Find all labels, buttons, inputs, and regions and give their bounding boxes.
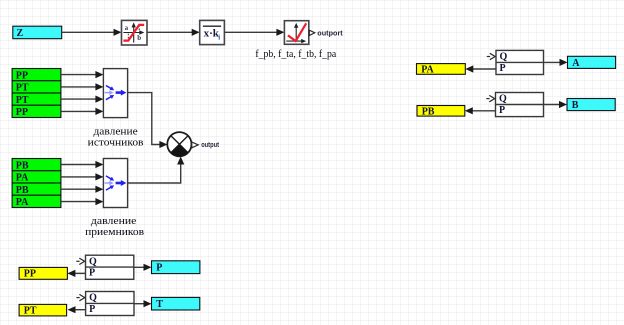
wire Q/P 1 to PP — [67, 270, 85, 277]
output port A — [568, 56, 616, 69]
wire Z to saturation block — [62, 29, 122, 36]
svg-text:приемников: приемников — [85, 226, 144, 238]
wire Q/P 2 to PT — [68, 306, 86, 313]
svg-text:PB: PB — [16, 160, 29, 171]
svg-text:Z: Z — [17, 28, 24, 39]
svg-text:PT: PT — [24, 305, 37, 316]
input block PP (2) — [12, 105, 61, 118]
mux1 давление источников — [103, 69, 127, 118]
Q/P converter block 3 — [487, 50, 544, 74]
Q/P converter block 2 — [76, 292, 134, 316]
svg-text:P: P — [499, 105, 505, 116]
svg-text:P: P — [89, 304, 95, 315]
svg-text:Q: Q — [499, 94, 507, 105]
wire Q/P 4 to PB — [465, 107, 496, 114]
wire PA(2) to mux2 — [61, 198, 104, 205]
wire mux2 to multiplier — [128, 157, 185, 184]
database write block PP — [19, 267, 67, 279]
svg-text:output: output — [201, 140, 219, 149]
svg-text:B: B — [572, 100, 579, 111]
input block PB (2) — [12, 183, 61, 196]
Q/P converter block 4 — [486, 93, 543, 117]
wire PA to mux2 — [61, 173, 104, 180]
input block PP (1) — [12, 69, 61, 82]
svg-text:PT: PT — [16, 95, 29, 106]
svg-text:PP: PP — [24, 268, 36, 279]
svg-text:источников: источников — [88, 137, 144, 149]
svg-text:PB: PB — [422, 106, 435, 117]
svg-text:Q: Q — [89, 256, 97, 267]
svg-text:T: T — [156, 299, 163, 310]
svg-text:PA: PA — [16, 197, 29, 208]
wire Q/P 1 to port P — [134, 264, 152, 271]
input block PT (1) — [12, 81, 61, 94]
wire Q/P 4 to port B — [544, 101, 568, 108]
output port P — [152, 261, 200, 274]
input block PB (1) — [12, 159, 61, 172]
svg-text:PP: PP — [16, 107, 28, 118]
database write block PB — [417, 106, 465, 118]
output port B — [567, 99, 615, 112]
svg-text:Q: Q — [89, 293, 97, 304]
svg-text:P: P — [89, 268, 95, 279]
input block PT (2) — [12, 93, 61, 106]
output port T — [152, 297, 200, 310]
svg-text:i: i — [218, 34, 220, 42]
svg-text:PT: PT — [16, 83, 29, 94]
wire PT to mux1 — [61, 83, 104, 90]
outport port marker — [309, 30, 314, 35]
wire saturation to gain — [147, 29, 200, 36]
wire Q/P 3 to PA — [465, 65, 496, 72]
wire Q/P 2 to port T — [134, 300, 152, 307]
wire PP(2) to mux1 — [61, 108, 104, 115]
wire PT(2) to mux1 — [61, 96, 104, 103]
svg-text:A: A — [572, 58, 580, 69]
source block Z — [13, 26, 62, 39]
svg-text:a: a — [125, 24, 129, 32]
wire PB(2) to mux2 — [61, 186, 104, 193]
svg-text:PA: PA — [421, 64, 434, 75]
wire gain to outport plot — [224, 29, 284, 36]
outport plot block f_pb,f_ta,f_tb,f_pa — [284, 21, 308, 45]
input block PA (1) — [12, 171, 61, 184]
svg-text:outport: outport — [317, 29, 343, 38]
Q/P converter block 1 — [76, 255, 134, 279]
output port marker — [192, 142, 198, 148]
database write block PA — [417, 64, 466, 76]
svg-text:f_pb, f_ta, f_tb, f_pa: f_pb, f_ta, f_tb, f_pa — [255, 48, 336, 60]
saturation block U1 (limits a,b) — [122, 20, 148, 45]
svg-text:Q: Q — [500, 52, 508, 63]
svg-text:P: P — [500, 63, 506, 74]
svg-text:b: b — [137, 34, 141, 42]
svg-text:PP: PP — [16, 70, 28, 81]
database write block PT — [19, 304, 67, 316]
wire mux1 to multiplier — [128, 93, 168, 149]
gain block x·ki — [200, 20, 225, 44]
wire Q/P 3 to port A — [544, 59, 568, 66]
wire PB to mux2 — [61, 161, 104, 168]
mux2 давление приемников — [103, 159, 127, 208]
svg-text:давление: давление — [94, 125, 138, 137]
wire PP to mux1 — [61, 71, 104, 78]
caption давление приемников — [85, 215, 144, 238]
caption давление источников — [88, 125, 144, 148]
multiplier M1 — [167, 132, 191, 156]
input block PA (2) — [12, 195, 61, 208]
svg-text:PB: PB — [16, 185, 29, 196]
svg-text:PA: PA — [16, 173, 29, 184]
svg-text:P: P — [156, 262, 162, 273]
